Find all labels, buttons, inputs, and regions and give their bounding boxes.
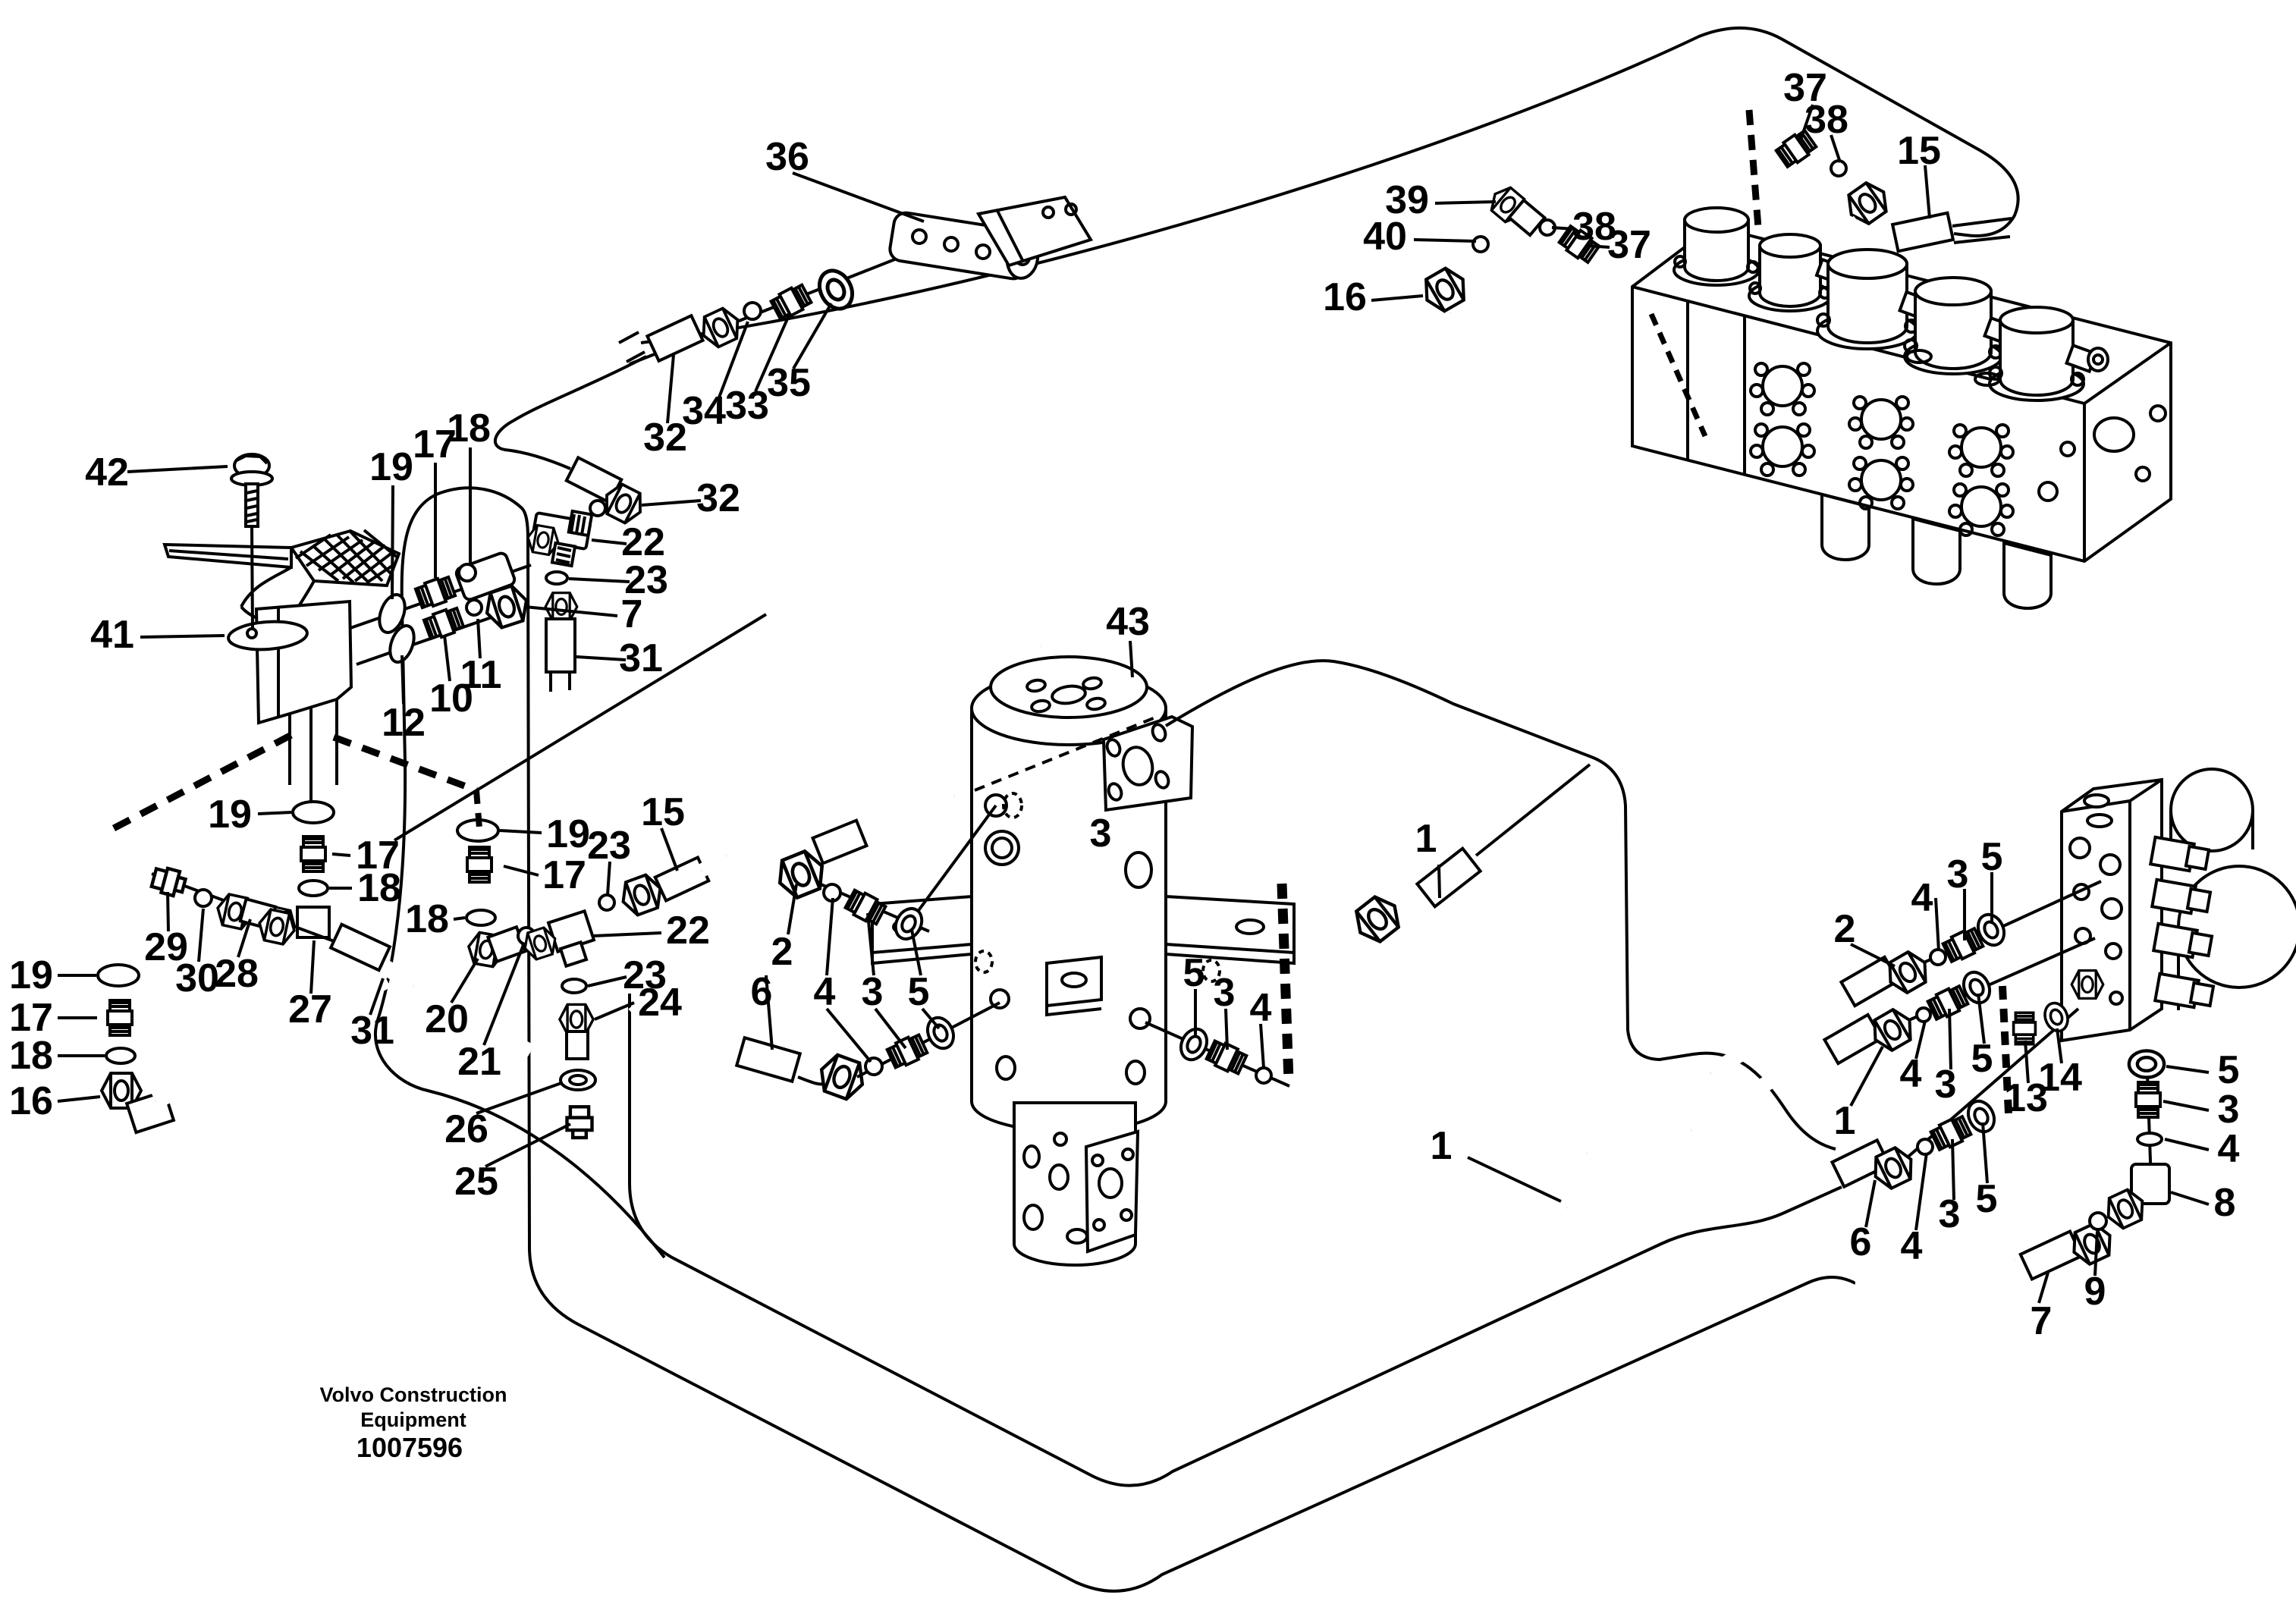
svg-text:3: 3 xyxy=(1935,1063,1957,1107)
svg-text:18: 18 xyxy=(9,1034,53,1078)
svg-text:6: 6 xyxy=(1850,1220,1872,1264)
svg-text:4: 4 xyxy=(814,970,836,1014)
svg-text:15: 15 xyxy=(641,790,685,834)
svg-text:33: 33 xyxy=(725,384,769,428)
svg-text:7: 7 xyxy=(621,592,643,636)
svg-text:3: 3 xyxy=(2218,1088,2240,1132)
svg-text:36: 36 xyxy=(765,135,809,179)
svg-text:18: 18 xyxy=(357,866,401,910)
svg-text:4: 4 xyxy=(1250,986,1272,1030)
svg-text:4: 4 xyxy=(1911,876,1933,920)
svg-text:18: 18 xyxy=(405,897,449,941)
svg-text:14: 14 xyxy=(2038,1056,2082,1100)
svg-text:5: 5 xyxy=(1183,951,1205,995)
svg-text:3: 3 xyxy=(862,970,884,1014)
svg-text:24: 24 xyxy=(638,981,682,1025)
svg-text:26: 26 xyxy=(444,1107,488,1151)
svg-text:4: 4 xyxy=(1901,1224,1923,1268)
svg-text:3: 3 xyxy=(1939,1192,1961,1236)
svg-text:32: 32 xyxy=(643,416,687,460)
svg-text:28: 28 xyxy=(215,952,259,996)
svg-text:31: 31 xyxy=(350,1009,394,1053)
svg-text:27: 27 xyxy=(288,987,332,1031)
svg-text:5: 5 xyxy=(1971,1037,1993,1081)
svg-text:1007596: 1007596 xyxy=(356,1432,463,1463)
svg-text:20: 20 xyxy=(425,997,469,1041)
svg-text:8: 8 xyxy=(2214,1181,2236,1225)
svg-text:1: 1 xyxy=(1834,1099,1856,1143)
svg-text:Equipment: Equipment xyxy=(360,1408,466,1431)
svg-text:40: 40 xyxy=(1363,215,1407,259)
svg-text:19: 19 xyxy=(369,445,413,489)
svg-text:2: 2 xyxy=(771,930,793,974)
svg-text:37: 37 xyxy=(1607,223,1651,267)
svg-text:3: 3 xyxy=(1947,852,1969,896)
svg-text:3: 3 xyxy=(1090,812,1112,856)
svg-text:42: 42 xyxy=(85,451,129,495)
svg-text:1: 1 xyxy=(1415,817,1437,861)
svg-text:19: 19 xyxy=(546,812,590,856)
svg-text:5: 5 xyxy=(1981,835,2003,879)
svg-text:Volvo Construction: Volvo Construction xyxy=(320,1383,507,1406)
svg-text:16: 16 xyxy=(1323,275,1367,319)
svg-text:18: 18 xyxy=(447,407,491,451)
svg-text:4: 4 xyxy=(1900,1052,1922,1096)
svg-text:38: 38 xyxy=(1804,98,1848,142)
svg-text:15: 15 xyxy=(1897,129,1941,173)
svg-text:34: 34 xyxy=(682,389,726,433)
svg-text:9: 9 xyxy=(2084,1270,2106,1314)
svg-text:31: 31 xyxy=(619,636,663,680)
svg-text:19: 19 xyxy=(208,793,252,837)
svg-text:19: 19 xyxy=(9,953,53,997)
svg-text:2: 2 xyxy=(1834,907,1856,951)
svg-text:41: 41 xyxy=(90,613,134,657)
svg-text:5: 5 xyxy=(1976,1177,1998,1221)
svg-text:5: 5 xyxy=(908,970,930,1014)
svg-text:11: 11 xyxy=(460,653,502,697)
svg-text:3: 3 xyxy=(1214,971,1236,1015)
svg-text:7: 7 xyxy=(2031,1299,2053,1343)
svg-text:30: 30 xyxy=(175,956,219,1000)
svg-text:4: 4 xyxy=(2218,1127,2240,1171)
svg-text:23: 23 xyxy=(587,824,631,868)
svg-text:25: 25 xyxy=(454,1160,498,1204)
svg-text:5: 5 xyxy=(2218,1048,2240,1092)
svg-text:35: 35 xyxy=(767,361,811,405)
svg-text:32: 32 xyxy=(696,476,740,520)
svg-text:1: 1 xyxy=(1431,1124,1453,1168)
svg-text:43: 43 xyxy=(1106,600,1150,644)
svg-text:12: 12 xyxy=(382,701,426,745)
svg-text:22: 22 xyxy=(666,909,710,953)
svg-text:16: 16 xyxy=(9,1079,53,1123)
svg-text:21: 21 xyxy=(457,1040,501,1084)
svg-text:17: 17 xyxy=(542,853,586,897)
svg-text:6: 6 xyxy=(751,970,773,1014)
